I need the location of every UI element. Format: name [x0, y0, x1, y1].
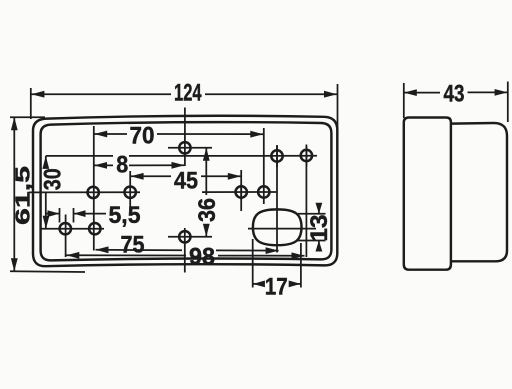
- dim 17 left arrow: [253, 281, 265, 288]
- dim 43 right arrow: [495, 89, 508, 96]
- dim 45 line right segment: [201, 175, 241, 177]
- dim 75 line left segment: [96, 249, 183, 251]
- dim 75 line right segment: [216, 249, 279, 251]
- ext line mid-right-A hole column: [240, 170, 242, 211]
- hole top-center: [179, 142, 190, 153]
- dim 5,5 left arrow (outside): [48, 210, 60, 217]
- dim 124 line left segment: [31, 93, 171, 95]
- dim 13 top stub: [298, 213, 326, 215]
- dim 8 left arrow: [94, 162, 107, 169]
- side view lens outline: [452, 123, 508, 261]
- dim 45 line left segment: [131, 175, 171, 177]
- svg-text:30: 30: [39, 168, 66, 190]
- svg-text:124: 124: [174, 80, 202, 107]
- dim 124 left extension: [30, 88, 32, 119]
- dim 30 line lower segment: [45, 193, 47, 229]
- svg-text:98: 98: [189, 243, 215, 270]
- dim 5,5 tail right: [74, 213, 107, 215]
- dim 124 right extension: [337, 84, 339, 143]
- svg-text:70: 70: [130, 122, 155, 149]
- dim 70 right arrow: [250, 131, 263, 138]
- svg-text:5,5: 5,5: [109, 202, 141, 229]
- lamp body outer outline (front view): [33, 116, 337, 266]
- hole top-right A: [271, 150, 282, 161]
- hole bottom-center: [179, 231, 190, 242]
- dim 17 right arrow: [289, 281, 301, 288]
- ext line bottom-center hole column: [184, 228, 186, 273]
- dim 13 up arrow (outside): [316, 241, 323, 252]
- dim 36 line lower segment: [205, 224, 207, 237]
- dim 5,5 right tangent stub: [73, 208, 75, 223]
- ext line left hole column: [93, 126, 95, 251]
- hole lower-left B: [89, 223, 100, 234]
- dim 61,5 down arrow: [11, 258, 18, 271]
- dim 36 up arrow: [203, 148, 210, 161]
- dim 43 right extension: [507, 82, 509, 123]
- ext line lower-left-A hole column: [65, 215, 67, 258]
- dim 45 left arrow: [131, 173, 144, 180]
- dim 70 line left segment: [94, 133, 127, 135]
- dim 124 right arrow: [324, 91, 337, 98]
- dim 70 line right segment: [157, 133, 263, 135]
- dim 36 down arrow: [203, 224, 210, 237]
- svg-text:8: 8: [116, 151, 128, 178]
- hole top-right B: [301, 150, 312, 161]
- dim 13 bottom stub: [297, 240, 326, 242]
- dim 45 right arrow: [228, 173, 241, 180]
- dim 17 left extension: [252, 239, 254, 288]
- dim 98 line left segment: [66, 254, 186, 256]
- dim 30 down arrow: [43, 216, 50, 229]
- dim 61,5 top extension: [10, 116, 45, 118]
- svg-text:13: 13: [306, 215, 333, 242]
- dim 17 right extension: [300, 243, 302, 288]
- dim 8 line left segment: [94, 164, 113, 166]
- hole mid-right A: [236, 186, 247, 197]
- dim 13 lower tail: [318, 241, 320, 250]
- dim 17 line right segment: [290, 283, 301, 285]
- dim 124 line right segment: [205, 93, 337, 95]
- hole mid-left A: [88, 187, 99, 198]
- dim 5,5 tail left: [46, 213, 60, 215]
- ext line top-right-A / oval center column: [276, 146, 278, 253]
- side view base plate outline: [404, 118, 451, 270]
- dim 30 line upper segment: [45, 156, 47, 165]
- hole mid-left B: [125, 187, 136, 198]
- dim 5,5 right arrow (outside): [74, 210, 86, 217]
- dim 43 line left segment: [404, 92, 440, 94]
- dim 61,5 bottom extension: [10, 270, 85, 273]
- ext line mid-right-B hole column: [263, 128, 265, 204]
- dim 36 line upper segment: [205, 148, 207, 195]
- dim 124 left arrow: [31, 91, 44, 98]
- centerline top-right hole row (right part): [129, 155, 317, 157]
- ext line top-right-B hole column: [305, 146, 307, 257]
- hole mid-right B: [258, 186, 269, 197]
- dim 17 line left segment: [253, 283, 263, 285]
- centerline lower-left holes: [42, 228, 105, 230]
- dim 43 left arrow: [404, 89, 417, 96]
- connector oval opening: [253, 209, 302, 245]
- hole lower-left A: [60, 223, 71, 234]
- dim 43 left extension: [403, 83, 405, 118]
- dim 8 right arrow: [172, 162, 185, 169]
- svg-text:36: 36: [194, 198, 221, 222]
- centerline top-right hole row (left part): [46, 155, 113, 157]
- ext line mid-left-B hole column: [129, 171, 131, 211]
- svg-text:17: 17: [265, 273, 288, 300]
- dim 61,5 up arrow: [11, 117, 18, 130]
- dim 70 left arrow: [94, 131, 107, 138]
- lamp body inner outline (lens rim): [41, 122, 332, 260]
- dim 43 line right segment: [468, 91, 508, 93]
- dim 5,5 left tangent stub: [59, 208, 61, 223]
- dim 13 upper tail: [318, 205, 320, 214]
- dim 8 line right segment: [129, 164, 185, 166]
- svg-text:75: 75: [121, 231, 145, 258]
- dim 98 left arrow: [66, 252, 79, 259]
- centerline mid-left holes: [29, 191, 140, 193]
- dim 61,5 line: [13, 117, 15, 271]
- ext line top-center hole column: [184, 108, 186, 167]
- svg-text:43: 43: [444, 80, 465, 107]
- centerline mid-right holes: [202, 191, 277, 193]
- dim 98 right arrow: [292, 252, 305, 259]
- dim 30 up arrow: [42, 156, 49, 169]
- dim 13 down arrow (outside): [316, 203, 323, 214]
- svg-text:61,5: 61,5: [12, 166, 34, 225]
- svg-text:45: 45: [174, 167, 198, 194]
- dim 75 right arrow: [266, 247, 279, 254]
- oval horizontal centerline: [248, 228, 316, 230]
- dim 75 left arrow: [96, 246, 109, 253]
- dim 98 line right segment: [218, 255, 305, 257]
